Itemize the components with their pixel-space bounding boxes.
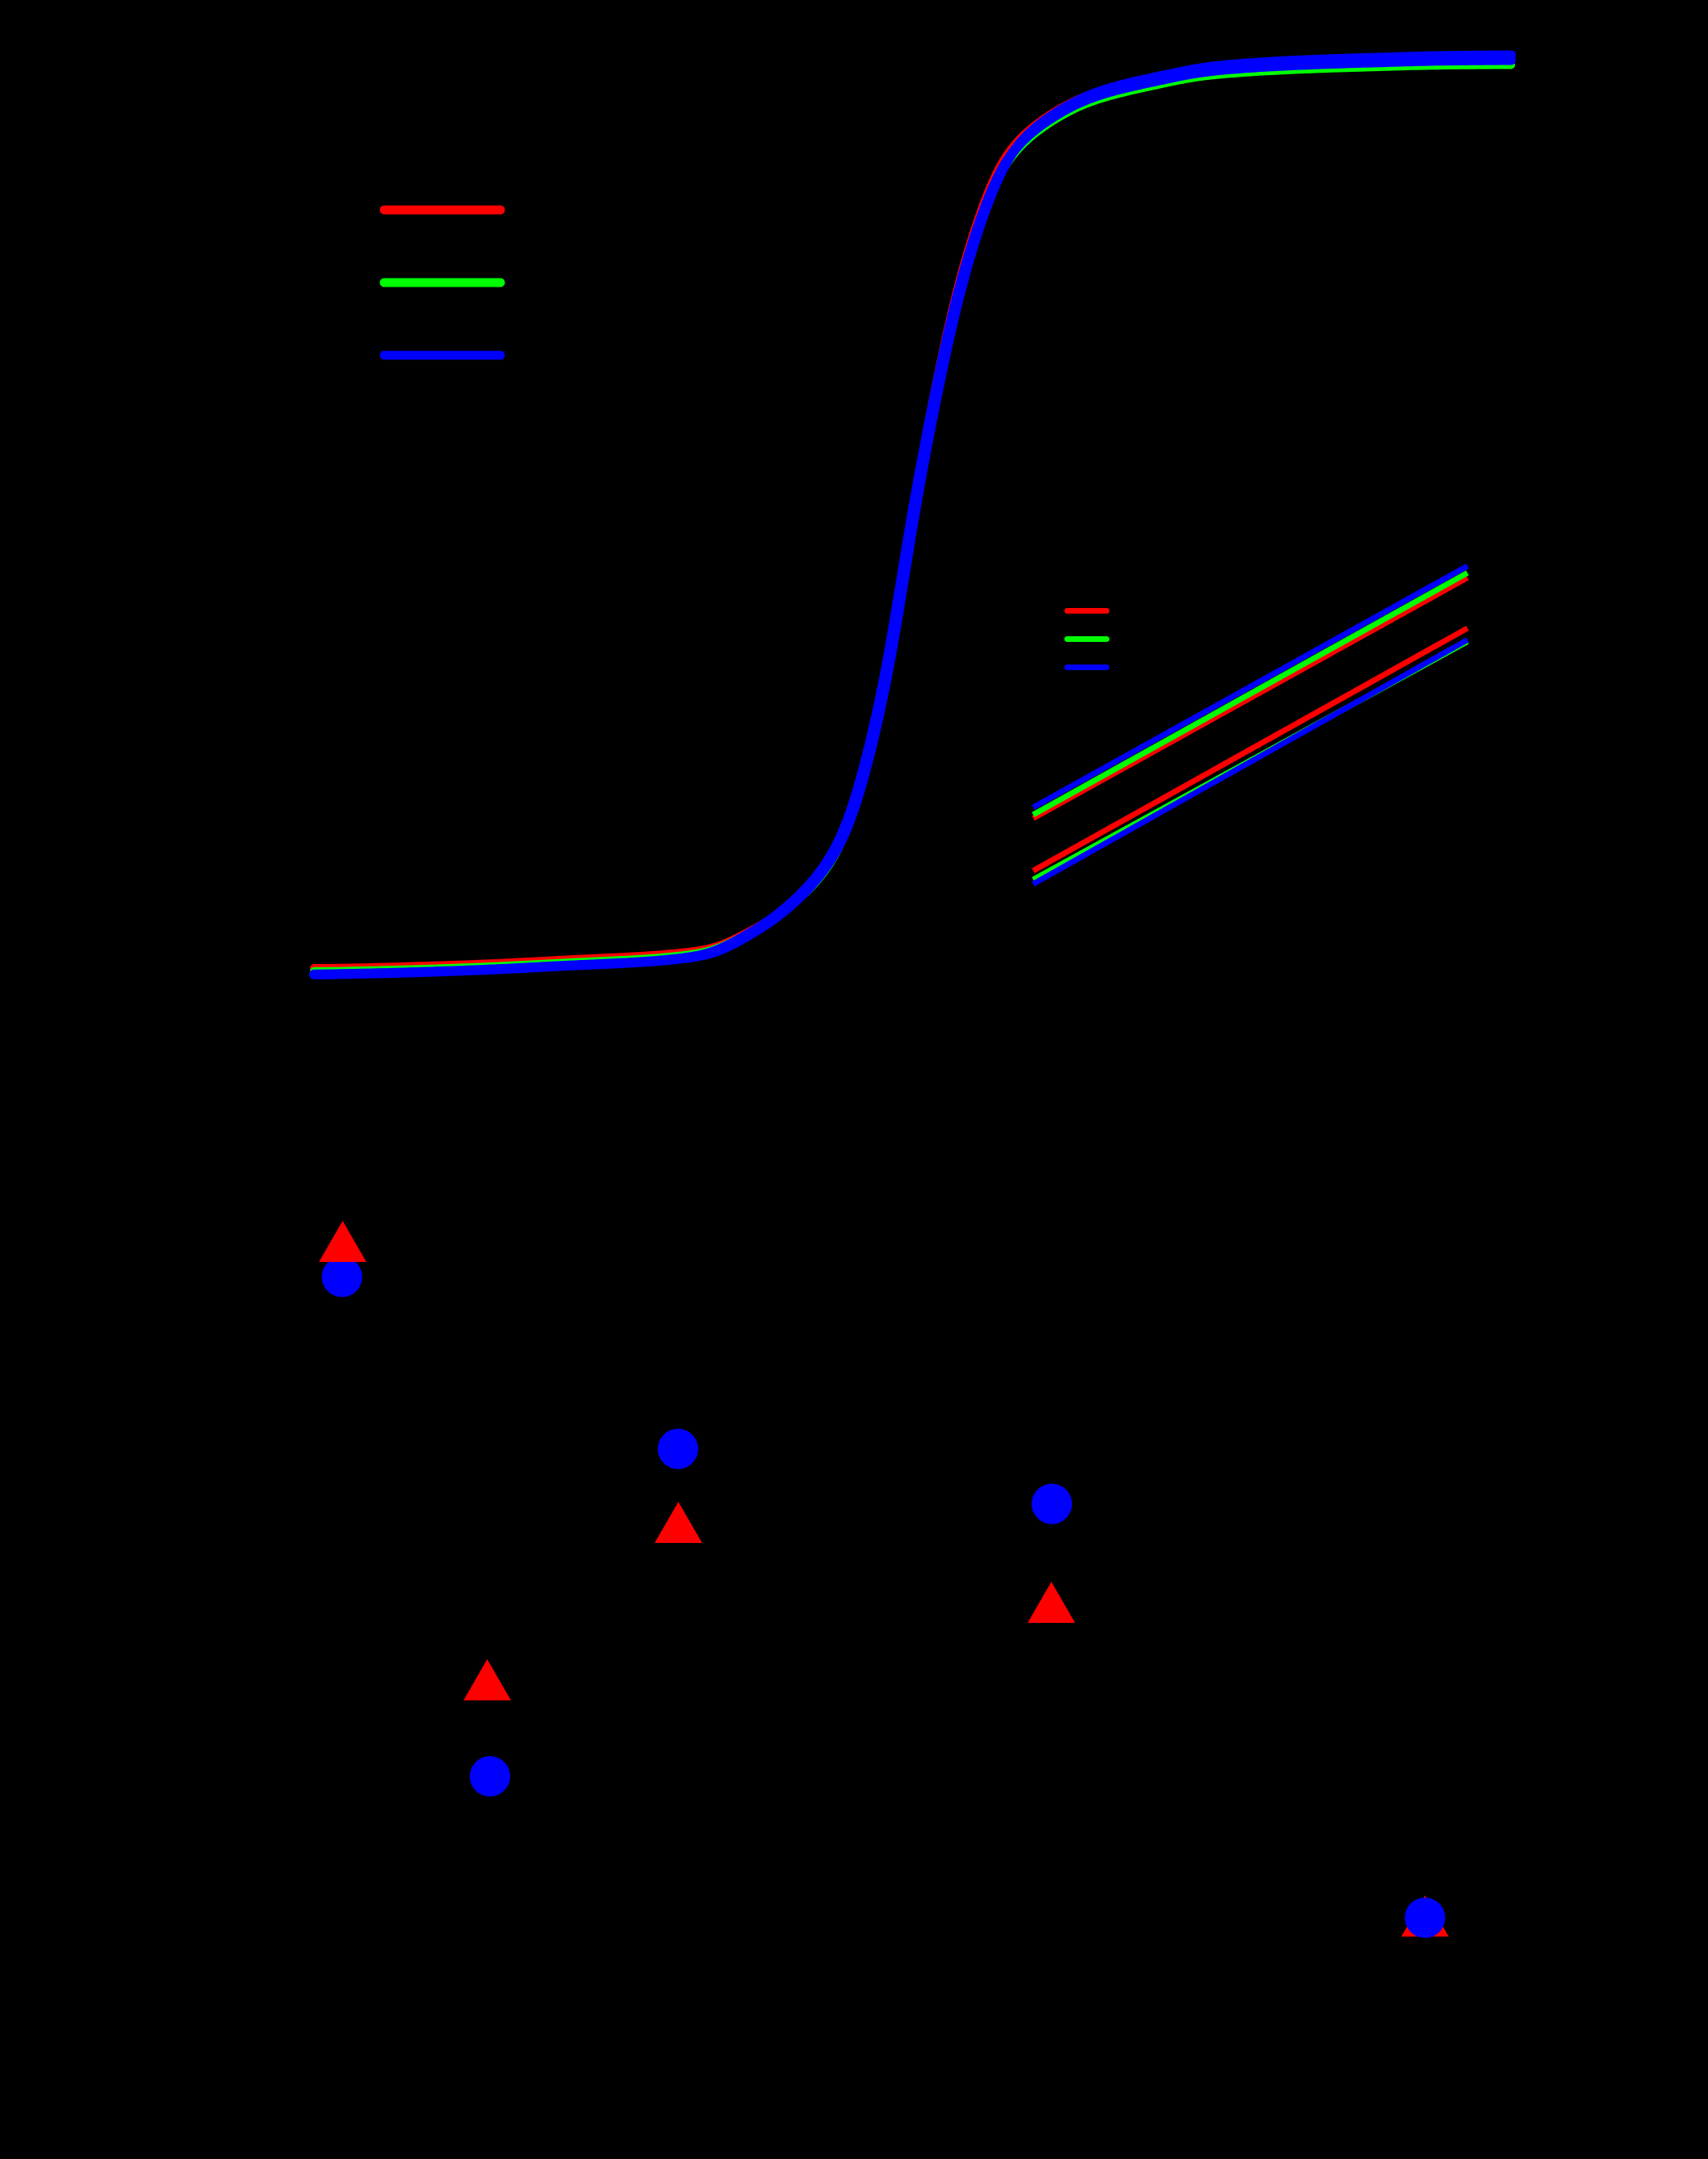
main plot legend: blue line [384, 351, 500, 360]
scatter pair 1: blue circle [322, 1256, 362, 1297]
scatter pair 3: red triangle [1028, 1582, 1075, 1623]
inset legend: green line [1067, 636, 1107, 642]
scatter pair 1: red triangle (on top) [319, 1221, 366, 1262]
inset upper bundle: green line [1033, 573, 1467, 815]
main sigmoid curve: green series [314, 65, 1511, 971]
main sigmoid curve: blue series run A [314, 61, 1511, 975]
scatter pair 5: blue circle (on top) [1404, 1897, 1445, 1938]
inset legend: red line [1067, 608, 1107, 614]
main sigmoid curve: blue series run B [314, 56, 1511, 975]
inset upper bundle: blue line [1033, 566, 1467, 807]
main plot legend: green line [384, 279, 500, 287]
scatter pair 4: blue circle [470, 1756, 510, 1796]
scatter pair 5: red triangle [1401, 1896, 1449, 1937]
main plot legend: red line [384, 206, 500, 215]
main sigmoid curve: red series [314, 58, 1511, 968]
inset lower bundle: red line [1033, 628, 1467, 870]
inset lower bundle: blue line [1033, 640, 1467, 884]
scatter pair 2: red triangle [655, 1502, 702, 1543]
inset legend: blue line [1067, 664, 1107, 670]
scatter pair 2: blue circle [658, 1429, 698, 1469]
inset lower bundle: green line [1033, 642, 1467, 880]
scatter pair 4: red triangle [463, 1659, 511, 1700]
scatter pair 3: blue circle [1032, 1484, 1072, 1524]
inset upper bundle: red line [1033, 578, 1467, 819]
